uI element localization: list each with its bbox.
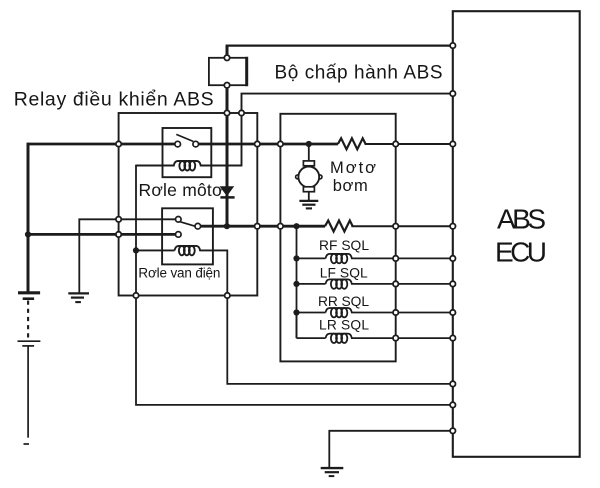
node: actuator right terminal row 226 [393, 224, 398, 229]
node: relay box top terminal (fuse line) [224, 110, 229, 115]
wire: fuse bottom feed (thick vertical through relay box) [226, 85, 229, 226]
node: actuator left terminal row 226 [278, 224, 283, 229]
node: relay box right terminal row 144 [255, 141, 260, 146]
wire: solenoid bus riser [296, 226, 298, 338]
node: actuator right terminal RR [393, 310, 398, 315]
node: actuator left terminal row 144 [278, 141, 283, 146]
relay K2 switch arm [180, 222, 195, 227]
node: relay box left terminal row 219 [116, 217, 121, 222]
solenoid coil LF SQL [297, 279, 396, 288]
svg-text:RF SQL: RF SQL [319, 238, 369, 253]
wire: battery tap to K2 lower contact [28, 233, 175, 236]
node: relay box left terminal row 144 [116, 141, 121, 146]
node: fuse bottom terminal [224, 83, 229, 88]
junction: RR tap [293, 309, 299, 315]
label: Mơtơ bơm [330, 159, 376, 195]
svg-text:Relay điều khiển ABS: Relay điều khiển ABS [14, 89, 214, 111]
node: actuator right terminal RF [393, 256, 398, 261]
svg-text:Bộ chấp hành ABS: Bộ chấp hành ABS [275, 62, 443, 83]
relay K2 moving contact [195, 223, 201, 229]
node: relay box bottom terminal right [225, 293, 230, 298]
wire: ground to K2 upper contact [79, 219, 175, 293]
node: ECU pin 1 [450, 43, 455, 48]
solenoid coil RR SQL [297, 308, 396, 317]
relay K2 contact lower [176, 232, 182, 238]
svg-text:Rơle môtơ: Rơle môtơ [139, 180, 224, 200]
node: ECU pin 9 [450, 381, 455, 386]
ABS actuator box (Bo chap hanh ABS) [280, 114, 395, 362]
relay K2 coil [175, 246, 228, 255]
node: fuse top terminal [224, 55, 229, 60]
node: ECU pin 10 [450, 402, 455, 407]
wire: fuse top to ECU pin 1 [226, 46, 453, 56]
wire: resistor R1 to ECU pin 3 [365, 143, 453, 145]
node: actuator right terminal row 144 [393, 141, 398, 146]
wire: K1 contact output to resistor R1 [199, 143, 338, 146]
junction: battery tap [25, 231, 31, 237]
relay K2 box (Role van dien) [162, 208, 213, 264]
wire: LR to ECU pin 8 [396, 337, 453, 339]
node: ECU pin 11 [450, 428, 455, 433]
node: relay box left terminal row 234 [116, 232, 121, 237]
relay K1 switch arm [176, 134, 193, 141]
junction: motor tap [306, 141, 312, 147]
relay assembly box (Relay dieu khien ABS) [119, 113, 258, 296]
junction: RF tap [293, 255, 299, 261]
wire: RR to ECU pin 7 [396, 312, 453, 314]
node: ECU pin 2 [450, 91, 455, 96]
node: ECU pin 4 [450, 224, 455, 229]
ground G1 (motor) [299, 201, 318, 209]
pump motor M1 [296, 144, 322, 201]
node: ECU pin 3 [450, 141, 455, 146]
label: ABS ECU [495, 204, 547, 268]
svg-text:ECU: ECU [495, 237, 547, 268]
svg-text:LF SQL: LF SQL [320, 266, 368, 281]
ABS ECU box [453, 11, 580, 457]
junction: LF tap [293, 281, 299, 287]
junction: solenoid bus top [293, 223, 299, 229]
node: ECU pin 8 [450, 335, 455, 340]
relay K1 contact left [175, 141, 181, 147]
svg-text:RR SQL: RR SQL [318, 294, 369, 309]
node: ECU pin 5 [450, 256, 455, 261]
diode D1 [220, 186, 235, 197]
node: ECU pin 6 [450, 281, 455, 286]
node: actuator right terminal LF [393, 281, 398, 286]
wire: relay coils common riser down to ECU pin 10 [136, 165, 453, 405]
svg-text:LR SQL: LR SQL [319, 318, 369, 333]
ground G2 [68, 293, 89, 302]
wire: K2 output to resistor R2 (solenoid feed) [201, 225, 325, 228]
wire: K2 coil left lead [136, 249, 175, 251]
fuse F1 [209, 57, 247, 86]
relay K2 contact upper [176, 217, 182, 223]
junction: diode line on solenoid feed [224, 223, 230, 229]
battery B1 [18, 143, 41, 444]
node: relay box top terminal (coil riser) [239, 110, 244, 115]
wire: resistor R2 to ECU pin 4 [351, 225, 453, 227]
wire: K2 coil right riser down to ECU pin 9 [227, 250, 452, 384]
svg-text:bơm: bơm [333, 177, 368, 195]
wire: K1 coil right riser up to ECU pin 2 [242, 94, 453, 167]
node: relay box bottom terminal left [133, 293, 138, 298]
wire: ECU ground pin 11 [329, 431, 453, 468]
svg-text:Mơtơ: Mơtơ [330, 159, 376, 177]
resistor R1 [338, 138, 366, 149]
ground G3 (ECU) [321, 468, 344, 476]
relay K1 box (Role moto) [163, 128, 212, 177]
wire: K1 coil left lead to common riser [136, 165, 174, 167]
node: relay box right terminal row 226 [255, 224, 260, 229]
node: actuator right terminal LR [393, 335, 398, 340]
svg-text:Rơle van điện: Rơle van điện [138, 265, 220, 280]
resistor R2 [325, 221, 353, 232]
relay K1 coil [163, 161, 242, 171]
junction: K2 coil on common riser [133, 247, 139, 253]
wire: LF to ECU pin 6 [396, 283, 453, 285]
solenoid coil RF SQL [297, 254, 396, 263]
solenoid coil LR SQL [297, 313, 396, 343]
node: ECU pin 7 [450, 310, 455, 315]
relay K1 contact right [193, 141, 199, 147]
svg-text:ABS: ABS [497, 204, 546, 235]
wire: RF to ECU pin 5 [396, 257, 453, 259]
wire: battery positive to relay K1 contact (row y=144 left) [28, 143, 175, 146]
